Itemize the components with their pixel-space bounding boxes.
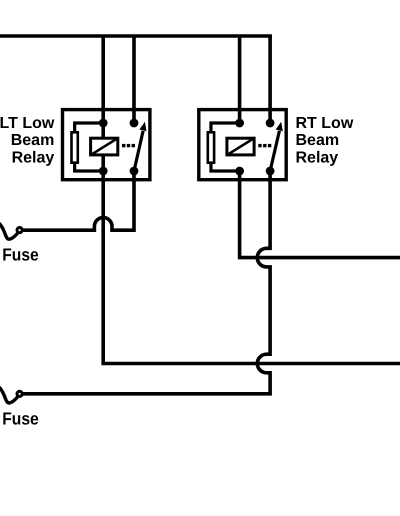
- fuse F2 label: [2, 409, 39, 429]
- right relay pin 87 dot: [266, 119, 275, 128]
- left relay pin 30 dot: [130, 167, 139, 176]
- left relay pin 87 dot: [130, 119, 139, 128]
- left relay switch arm: [134, 122, 147, 171]
- fuse F2 wavy lead: [0, 386, 18, 403]
- right relay pin 30 dot: [266, 167, 275, 176]
- right relay coil: [227, 138, 255, 156]
- wire: right relay switch contact drop from bus: [268, 36, 272, 123]
- svg-text:Fuse: Fuse: [2, 409, 39, 429]
- fuse F1 label: [2, 245, 39, 265]
- left relay coil: [90, 138, 118, 156]
- right relay switch arm: [270, 122, 283, 171]
- wire: right relay switch common down to fuse 2 with two hops: [23, 171, 270, 394]
- svg-text:Fuse: Fuse: [2, 245, 39, 265]
- left relay box: [63, 110, 150, 180]
- fuse F2 terminal circle: [17, 391, 22, 396]
- left relay linkage dots: [122, 144, 135, 147]
- right relay box: [199, 110, 286, 180]
- wire: top supply bus: [0, 34, 272, 38]
- right relay pin 86 dot: [235, 119, 244, 128]
- wire: right relay coil drop from bus: [238, 36, 242, 123]
- svg-text:LT LowBeamRelay: LT LowBeamRelay: [0, 115, 55, 167]
- label: LT Low Beam Relay: [0, 115, 55, 167]
- svg-text:RT LowBeamRelay: RT LowBeamRelay: [296, 115, 354, 167]
- wire: right relay coil leg down with corner to right output: [240, 171, 400, 258]
- left relay pin 86 dot: [99, 119, 108, 128]
- fuse F1 terminal circle: [17, 228, 22, 233]
- right relay pin 85 dot: [235, 167, 244, 176]
- wire: left relay switch common down to fuse 1 with hop over x=103.3: [23, 171, 134, 230]
- fuse F1 wavy lead: [0, 222, 18, 239]
- wire: left relay coil leg (vertical x=103.3) with corner to right output: [103, 36, 400, 364]
- left relay pin 85 dot: [99, 167, 108, 176]
- right relay linkage dots: [258, 144, 271, 147]
- label: RT Low Beam Relay: [296, 115, 354, 167]
- left relay resistor: [72, 123, 104, 171]
- wire: left relay switch contact drop from bus: [132, 36, 136, 123]
- right relay resistor: [208, 123, 240, 171]
